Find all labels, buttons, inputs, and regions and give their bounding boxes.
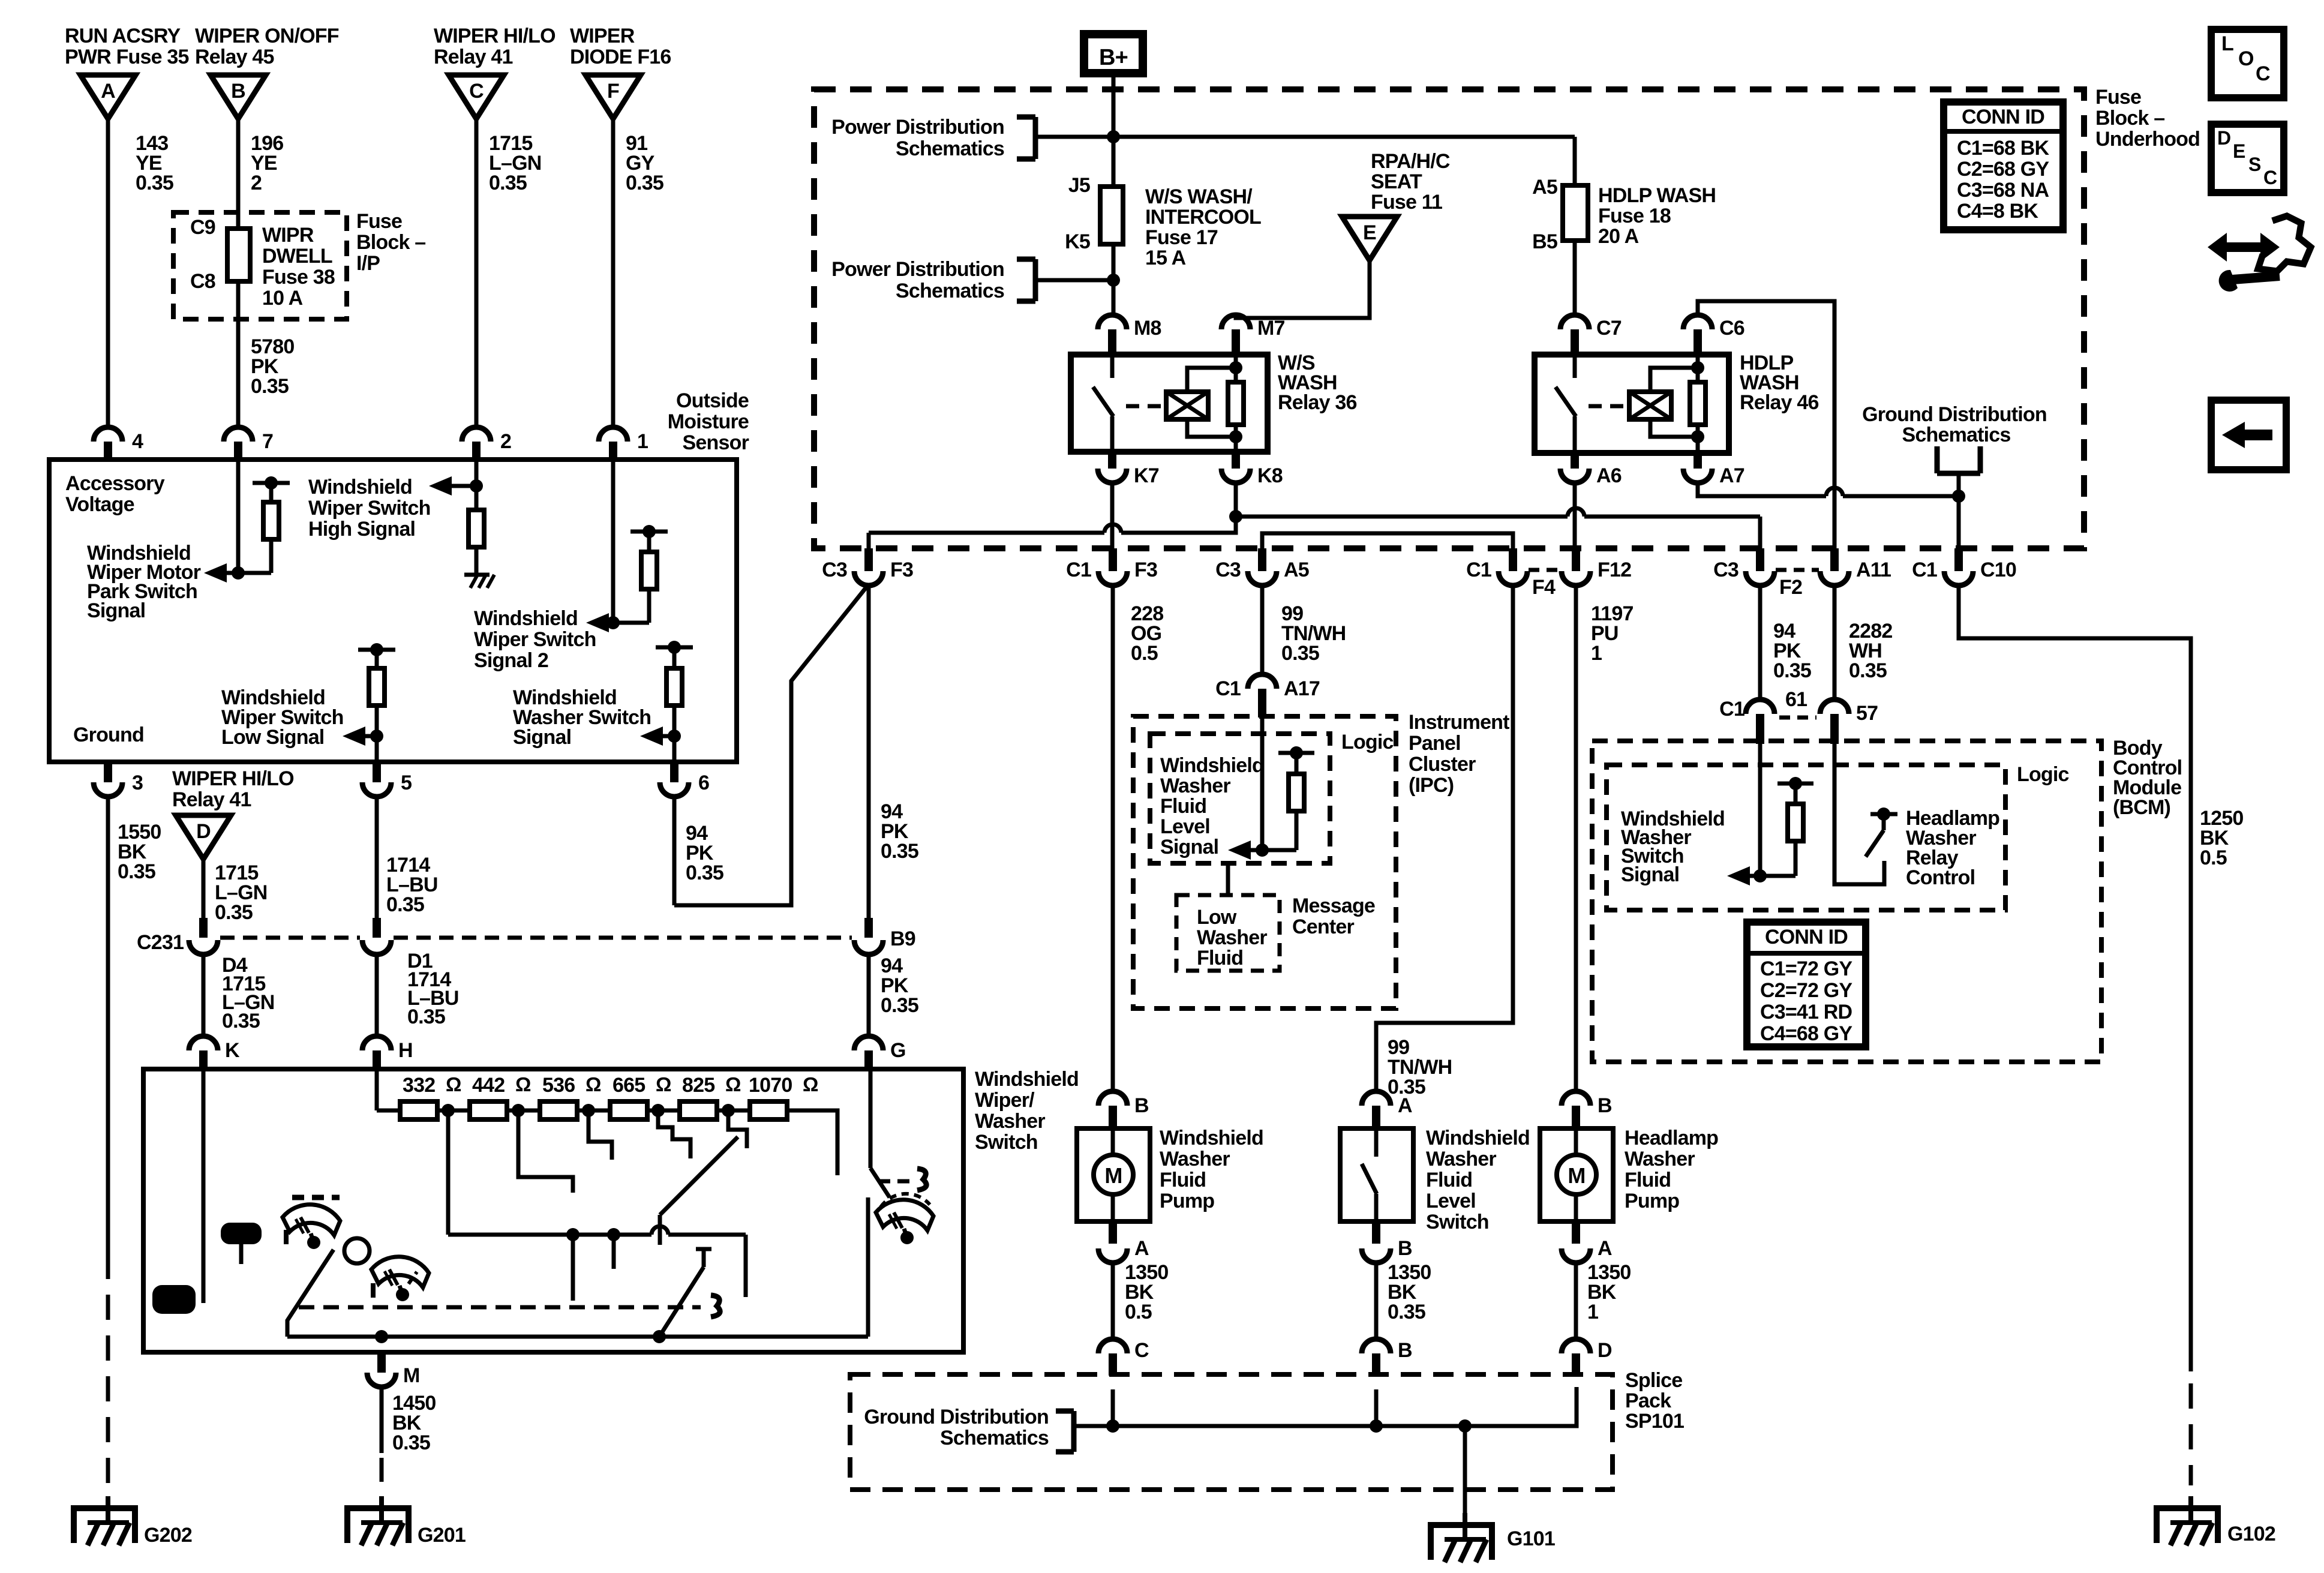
svg-text:6: 6 [698,772,709,794]
connector bump pin 2 [462,427,491,442]
node signal2 junction [606,616,620,629]
fuse F17 W/S WASH [1100,187,1123,244]
svg-text:WIPR: WIPR [262,224,314,247]
svg-text:1: 1 [1587,1301,1598,1323]
svg-text:0.35: 0.35 [881,840,918,863]
svg-text:HDLP WASH: HDLP WASH [1598,184,1716,207]
svg-text:B: B [1398,1339,1412,1362]
connector bump pin K [189,1036,218,1050]
BCM logic dashed box [1607,765,2005,910]
svg-text:332: 332 [403,1074,435,1097]
svg-text:0.35: 0.35 [626,172,663,194]
wiper icon low [283,1205,340,1235]
svg-text:K8: K8 [1257,464,1283,487]
svg-text:A17: A17 [1284,677,1320,700]
svg-text:4: 4 [132,430,143,453]
svg-text:Panel: Panel [1409,732,1461,755]
wire hl pump to splice [1574,1263,1578,1339]
bus node M [375,1330,388,1343]
connector bump pin A (washer pump) [1109,1221,1117,1244]
svg-text:10 A: 10 A [262,287,303,310]
connector triangle C [449,75,504,119]
svg-text:F12: F12 [1598,559,1631,581]
connector bump C1F3 at fuse box edge [1109,548,1117,571]
svg-text:C1: C1 [1719,698,1744,721]
node low signal junction [370,730,383,743]
svg-text:0.35: 0.35 [386,893,424,916]
mist switch feed [869,1070,873,1168]
hop over C6 drop [1826,488,1843,496]
svg-text:B+: B+ [1099,45,1128,70]
relay46 coil [1629,392,1671,419]
svg-text:536: 536 [542,1074,575,1097]
contact stub [571,1235,575,1301]
svg-text:Fuse 17: Fuse 17 [1145,226,1218,249]
power distribution bus 1 [1035,135,1575,139]
svg-text:B5: B5 [1532,230,1557,253]
svg-text:Signal: Signal [1621,863,1679,886]
svg-text:Washer: Washer [1160,775,1230,797]
bus node wash [653,1330,666,1343]
svg-text:M8: M8 [1134,317,1161,340]
svg-text:Ground: Ground [73,724,144,746]
svg-text:0.35: 0.35 [222,1010,260,1032]
svg-text:2: 2 [251,172,262,194]
svg-text:Control: Control [1906,866,1975,889]
tap wire 536 [588,1116,612,1160]
svg-text:L: L [2221,32,2233,55]
connector C231 inline bump D1 [362,940,391,954]
arrow windshield wiper switch high signal [447,484,476,488]
dashed link 61-57 [1779,716,1816,720]
svg-text:Message: Message [1292,894,1375,917]
rotary wiper arm [658,1215,662,1245]
relay36 resistor [1234,355,1238,382]
svg-text:C3: C3 [1215,559,1241,581]
svg-text:Windshield: Windshield [1160,754,1264,777]
svg-text:Block –: Block – [2095,107,2164,130]
svg-text:G202: G202 [144,1524,192,1547]
svg-text:Windshield: Windshield [308,476,412,499]
svg-text:3: 3 [132,772,143,794]
node park switch junction [232,566,245,580]
connector bump pin B (headlamp pump) [1562,1091,1590,1106]
wire pin 6 drop [672,797,677,905]
node B+ bus [1107,130,1120,143]
svg-text:Moisture: Moisture [668,410,749,433]
relay36 actuator dashed [1126,404,1162,409]
svg-text:A: A [101,80,115,103]
svg-text:Signal: Signal [1160,836,1218,858]
svg-text:B: B [1398,1237,1412,1260]
switch bottom bus [287,1335,868,1339]
chain tap node [442,1104,455,1117]
connector bump pin A (hl pump) [1572,1221,1580,1244]
svg-text:Fluid: Fluid [1160,1169,1206,1191]
tap wire 825 [728,1116,747,1148]
washer pump motor [1111,1128,1115,1155]
svg-text:F: F [607,80,619,103]
connector bump pin D (splice) [1562,1339,1590,1353]
relay46 actuator dashed [1589,404,1625,409]
svg-text:Schematics: Schematics [896,280,1004,302]
wire 196 YE from B [236,119,241,427]
wire 99 TN/WH from F4 [1376,584,1513,1091]
svg-text:0.35: 0.35 [1773,659,1811,682]
svg-text:C9: C9 [190,216,215,239]
connector triangle A [80,75,136,119]
BCM outer dashed box [1592,741,2101,1062]
svg-text:Power Distribution: Power Distribution [831,116,1004,139]
svg-text:C7: C7 [1596,317,1622,340]
svg-text:Headlamp: Headlamp [1625,1127,1718,1149]
CONN ID table (BCM) [1747,922,1866,1047]
bracket ground distribution (splice) [1071,1411,1077,1452]
wire D to C231 [202,859,206,918]
wash contact stub [696,1247,711,1251]
svg-text:Pump: Pump [1160,1190,1214,1212]
svg-text:(BCM): (BCM) [2113,796,2170,819]
svg-text:0.5: 0.5 [1125,1301,1152,1323]
svg-text:Switch: Switch [975,1131,1038,1154]
connector C231 dashed line [220,936,360,940]
connector bump pin 7 [224,427,253,442]
svg-text:Schematics: Schematics [940,1427,1049,1449]
resistor 1070 ohm [750,1101,787,1119]
wire B9 to G [867,954,871,1036]
connector bump C1|61 [1746,700,1774,714]
connector bump pin B (washer pump) [1098,1091,1127,1106]
svg-text:C10: C10 [1980,559,2016,581]
resistor 825 ohm [680,1101,717,1119]
svg-text:0.35: 0.35 [489,172,527,194]
svg-text:0.35: 0.35 [1281,642,1319,665]
wash switch blade [659,1267,704,1337]
connector bump 57 [1820,700,1849,714]
outside moisture sensor box [49,460,737,762]
svg-text:Fluid: Fluid [1197,947,1243,969]
wire pin C to bus [1111,1389,1115,1426]
wire D1 to pin H [375,954,379,1036]
svg-text:C1: C1 [1466,559,1491,581]
svg-text:61: 61 [1785,688,1807,711]
svg-text:Wiper Switch: Wiper Switch [308,497,431,520]
svg-text:Outside: Outside [676,389,749,412]
resistor pull-up on F branch [630,530,668,534]
windshield washer fluid pump box [1077,1128,1150,1221]
wire 91 GY from F [611,119,615,427]
svg-text:C4=8 BK: C4=8 BK [1957,200,2038,223]
connector bump A11 at fuse box edge [1830,548,1839,571]
level switch contact [1374,1128,1379,1157]
common node [566,1228,580,1241]
chain tap node [582,1104,595,1117]
connector bump C1F4 at fuse box edge [1509,548,1517,571]
resistor washer signal branch [656,646,693,650]
svg-text:0.35: 0.35 [251,375,289,398]
svg-text:Relay 46: Relay 46 [1740,391,1819,414]
svg-text:CONN ID: CONN ID [1962,106,2044,128]
svg-text:A6: A6 [1596,464,1622,487]
svg-text:WIPER HI/LO: WIPER HI/LO [434,25,556,47]
connector bump pin 1 [599,427,627,442]
connector bump F12 at fuse box edge [1572,548,1580,571]
node fuse17 bus2 [1107,274,1120,287]
bracket power distribution 2 [1033,259,1038,301]
connector bump C1|A17 [1248,674,1277,689]
wire logic to message center [1226,863,1230,895]
connector bump pin 5 [373,762,381,782]
connector bump pin 6 [670,762,678,782]
svg-text:Windshield: Windshield [474,607,578,630]
wire K8 branch to F3 [1121,517,1236,533]
svg-text:E: E [2233,140,2245,162]
svg-text:825: 825 [682,1074,714,1097]
svg-text:0.35: 0.35 [1388,1301,1425,1323]
svg-text:Washer: Washer [975,1110,1045,1133]
svg-text:Windshield: Windshield [1426,1127,1530,1149]
connector bump pin M8 [1098,315,1127,329]
connector bump C3F3 at fuse box edge [864,548,873,571]
svg-text:Windshield: Windshield [1160,1127,1263,1149]
connector bump pin A (level switch) [1362,1091,1391,1106]
wire 1250 BK dashed [2189,1383,2193,1485]
svg-text:C1=68 BK: C1=68 BK [1957,137,2050,160]
wire 1197 PU [1574,584,1578,1091]
resistor pull-up on B branch [253,481,290,485]
svg-text:Accessory: Accessory [65,472,165,495]
ground G101 [1463,1513,1467,1525]
dashed link F4-F12 [1529,568,1560,572]
svg-text:A: A [1134,1237,1149,1260]
svg-text:(IPC): (IPC) [1409,774,1454,797]
svg-text:Fluid: Fluid [1625,1169,1671,1191]
svg-text:C2=68 GY: C2=68 GY [1957,158,2049,181]
svg-text:Fluid: Fluid [1160,795,1206,818]
chain tap node [722,1104,735,1117]
svg-text:G101: G101 [1507,1527,1555,1550]
resistor 536 ohm [540,1101,577,1119]
connector bump pin A6 [1571,453,1579,469]
svg-text:High Signal: High Signal [308,518,415,541]
mode selector circle OFF [344,1238,370,1263]
hop over A6 wire [1568,508,1584,517]
chain tail wire [787,1110,837,1175]
svg-text:RPA/H/C: RPA/H/C [1371,150,1450,173]
connector bump C1C10 at fuse box edge [1954,548,1963,571]
svg-text:C4=68 GY: C4=68 GY [1760,1022,1852,1045]
IPC outer dashed box [1133,716,1396,1008]
wire 143 YE from A [106,119,110,427]
svg-text:7: 7 [262,430,273,453]
svg-text:Low Signal: Low Signal [221,726,324,749]
svg-text:B: B [1134,1094,1149,1117]
node BCM junction [1753,869,1767,882]
stub pin M [377,1352,386,1373]
wire 99 TN/WH to A17 [1260,584,1265,674]
svg-text:D: D [196,820,211,843]
diagonal link pin6 wire to F3 bump [674,584,869,905]
svg-text:C231: C231 [137,931,184,954]
connector bump pin G [854,1036,883,1050]
svg-text:Washer: Washer [1197,926,1267,949]
svg-text:A11: A11 [1856,559,1891,581]
arrow windshield wiper motor park switch signal [222,571,238,575]
svg-text:G102: G102 [2227,1523,2275,1545]
wire 1714 from pin 5 [375,797,379,918]
svg-text:0.35: 0.35 [118,860,155,883]
BCM pull-up resistor [1777,782,1813,786]
relay36 switch [1110,355,1115,378]
svg-text:Block –: Block – [356,231,425,254]
svg-text:M: M [1568,1163,1585,1188]
low washer fluid dashed box [1176,895,1280,971]
svg-text:E: E [1363,221,1376,244]
svg-text:Fluid: Fluid [1426,1169,1472,1191]
connector bump pin K8 [1232,452,1240,469]
wire level switch to splice [1374,1263,1379,1339]
relay W/S WASH Relay 36 box [1071,355,1268,452]
vehicle/wrench icon [2208,233,2280,262]
relay36 coil bottom wire [1187,419,1236,437]
fuse F18 HDLP WASH [1563,185,1588,241]
svg-text:1: 1 [1591,642,1602,665]
wire F inside sensor [611,460,615,623]
wire 61 into BCM [1758,728,1762,876]
svg-text:B: B [1598,1094,1612,1117]
wash actuator contact [711,1295,720,1317]
relay36 coil top wire [1187,368,1236,392]
svg-text:0.35: 0.35 [136,172,173,194]
wire E to M7 [1236,260,1370,318]
svg-text:Windshield: Windshield [975,1068,1079,1091]
svg-text:F4: F4 [1532,576,1556,599]
svg-text:Relay 36: Relay 36 [1278,391,1357,414]
svg-text:Pump: Pump [1625,1190,1679,1212]
wire junction to C10 [1957,496,1961,548]
relay46 switch [1573,355,1577,378]
wiper icon delay [371,1257,429,1287]
svg-text:C8: C8 [190,270,215,293]
svg-text:Sensor: Sensor [683,431,749,454]
svg-text:15 A: 15 A [1145,247,1186,269]
arrow windshield wiper switch signal 2 [604,621,613,625]
svg-text:S: S [2248,154,2261,175]
resistor on wire C [469,510,484,547]
BCM relay control switch [1870,812,1897,816]
svg-text:DIODE F16: DIODE F16 [570,46,671,68]
chain wire [507,1109,540,1113]
svg-text:C2=72 GY: C2=72 GY [1760,979,1852,1002]
svg-text:F2: F2 [1779,576,1802,599]
wire C inside sensor [475,460,479,510]
svg-text:Ground Distribution: Ground Distribution [1862,403,2047,426]
node IPC junction [1256,843,1269,857]
svg-text:INTERCOOL: INTERCOOL [1145,206,1261,229]
connector bump pin 4 [94,427,122,442]
arrow windshield washer switch signal [658,734,674,739]
svg-text:DWELL: DWELL [262,245,332,268]
mist actuator dashed [878,1179,914,1184]
connector bump pin A7 [1694,453,1702,469]
svg-text:G201: G201 [418,1524,466,1547]
arrow windshield washer fluid level signal [1246,848,1262,852]
svg-text:Washer: Washer [1625,1148,1695,1170]
svg-text:RUN ACSRY: RUN ACSRY [65,25,181,47]
wire bus to fuse18 [1573,137,1577,185]
svg-text:0.35: 0.35 [407,1005,445,1028]
svg-text:Logic: Logic [2017,763,2069,786]
svg-text:Level: Level [1160,815,1210,838]
IPC logic dashed box [1150,734,1330,863]
back-arrow icon box [2211,400,2286,470]
connector bump C3A5 at fuse box edge [1258,548,1266,571]
svg-text:Washer: Washer [1160,1148,1230,1170]
DESC icon box [2211,124,2284,193]
svg-text:F3: F3 [1134,559,1157,581]
wire splice to G101 [1463,1426,1467,1513]
splice node G101 [1458,1419,1472,1433]
dashed link F2-A11 [1776,568,1819,572]
svg-text:Underhood: Underhood [2095,128,2200,151]
connector bump pin C6 [1683,315,1712,329]
wire A6 to F12 [1573,483,1577,548]
svg-text:Ω: Ω [585,1073,601,1095]
wiper icon mist [876,1200,933,1230]
common node [607,1228,620,1241]
connector bump pin C (splice) [1098,1339,1127,1353]
svg-text:Ω: Ω [656,1073,671,1095]
svg-text:A7: A7 [1719,464,1744,487]
resistor 332 ohm [400,1101,437,1119]
svg-text:C: C [2256,62,2270,85]
svg-text:C1: C1 [1066,559,1091,581]
svg-text:Wiper Switch: Wiper Switch [474,628,596,651]
svg-text:Relay 45: Relay 45 [195,46,274,68]
fuse block I/P dashed outline [173,212,347,319]
connector bump pin 3 [104,762,112,782]
wire washer signal to pin 6 [672,736,677,762]
svg-text:Logic: Logic [1341,731,1394,754]
svg-text:M: M [1104,1163,1122,1188]
svg-text:Power Distribution: Power Distribution [831,258,1004,281]
svg-text:Fuse 18: Fuse 18 [1598,205,1671,227]
svg-text:Low: Low [1197,906,1237,929]
wash actuator dashed line [299,1305,701,1310]
wire K8 to F2 (hopped) [1236,515,1568,519]
wire A17 into IPC [1260,718,1265,850]
CONN ID table (underhood) [1944,102,2063,230]
svg-text:D: D [1598,1339,1612,1362]
battery feed B+ box [1084,34,1143,73]
connector bump pin M7 [1221,315,1250,329]
svg-text:K7: K7 [1134,464,1159,487]
headlamp washer fluid pump box [1540,1128,1613,1221]
wire 57 output [1834,728,1884,884]
wire 94 PK (F3 to B9) [867,584,871,918]
wire fuse18 to C7 [1573,241,1577,315]
svg-text:2: 2 [500,430,511,453]
fuse block underhood dashed box [814,89,2084,548]
svg-text:Ω: Ω [446,1073,461,1095]
svg-text:C3=68 NA: C3=68 NA [1957,179,2049,202]
detent blob upper [221,1223,262,1244]
headlamp pump motor [1574,1128,1578,1155]
resistor low signal branch [358,648,395,652]
svg-text:SP101: SP101 [1625,1410,1684,1433]
svg-text:Signal: Signal [87,599,145,622]
svg-text:K: K [225,1039,240,1062]
